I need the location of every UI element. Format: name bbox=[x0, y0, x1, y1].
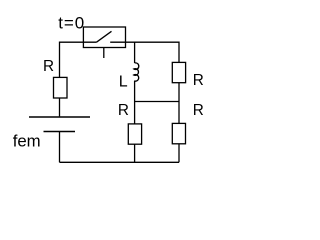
wire R2 to bottom rail bbox=[134, 144, 136, 162]
svg-text:L: L bbox=[119, 73, 128, 90]
wire R1 to battery top plate bbox=[59, 98, 61, 116]
wire R3 to middle wire bbox=[178, 83, 180, 102]
switch enclosure box bbox=[83, 27, 125, 48]
svg-text:R: R bbox=[193, 72, 204, 89]
resistor R1 (left) bbox=[54, 77, 68, 98]
switch S1 blade and contacts bbox=[83, 31, 125, 58]
resistor R3 (top right) bbox=[172, 62, 185, 82]
svg-text:R: R bbox=[43, 58, 54, 75]
resistor R2 (middle branch) bbox=[128, 124, 141, 144]
svg-text:R: R bbox=[118, 102, 129, 119]
inductor L coil bbox=[134, 63, 139, 81]
wire inductor to middle resistor bbox=[133, 81, 135, 124]
battery fem top plate bbox=[29, 116, 90, 118]
wire middle branch top segment bbox=[134, 42, 136, 63]
wire top-left from node A to switch box bbox=[60, 42, 84, 77]
svg-text:R: R bbox=[193, 102, 204, 119]
wire switch box to right branch top corner bbox=[126, 42, 180, 62]
wire R4 to bottom rail bbox=[178, 144, 180, 163]
battery fem bottom plate bbox=[44, 131, 76, 133]
wire battery to bottom rail bbox=[59, 132, 61, 163]
wire bottom rail bbox=[60, 161, 180, 163]
svg-text:fem: fem bbox=[13, 132, 41, 151]
wire middle horizontal connecting branches bbox=[135, 101, 179, 103]
resistor R4 (bottom right) bbox=[172, 123, 185, 143]
svg-text:t=0: t=0 bbox=[58, 13, 85, 32]
wire middle wire to R4 bbox=[178, 102, 180, 124]
